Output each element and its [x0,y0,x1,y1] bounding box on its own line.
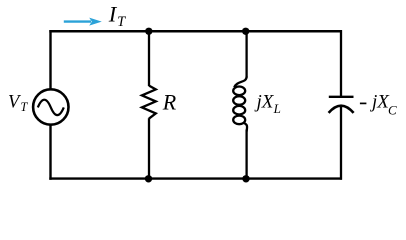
svg-text:T: T [117,14,126,30]
wire left branch upper [49,30,51,89]
label R [162,90,177,115]
node dot: resistor top junction [145,28,152,35]
label jXL [254,91,281,115]
wire bottom [49,177,342,179]
svg-text:L: L [273,101,281,116]
wire resistor branch lower [148,118,150,178]
source VT (AC source circle) [33,89,68,124]
wire capacitor branch upper [340,30,342,96]
wire inductor branch upper [245,31,247,77]
node dot: inductor bottom junction [242,175,249,182]
label IT [108,2,126,31]
wire top [49,30,342,33]
svg-text:R: R [162,90,177,115]
wire resistor branch upper [148,31,150,86]
node dot: inductor top junction [242,28,249,35]
resistor R (zigzag) [142,86,156,119]
wire capacitor branch lower [340,107,342,180]
wire inductor branch lower [245,130,247,179]
wire left branch lower [49,125,51,180]
node dot: resistor bottom junction [145,175,152,182]
current arrow IT (blue) [64,18,102,26]
svg-text:T: T [20,100,28,114]
label -jXC [360,91,397,117]
svg-text:jX: jX [254,91,275,112]
inductor jXL (coil of 4 loops) [233,77,247,132]
capacitor -jXC (flat plate + curved plate) [329,97,354,113]
svg-text:C: C [388,102,397,117]
label VT [8,93,28,115]
